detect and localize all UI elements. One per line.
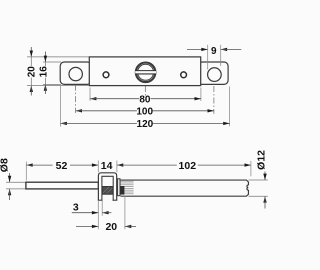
dimension 80 (90, 94, 201, 105)
barrel (hatched block) (102, 187, 113, 195)
svg-text:16: 16 (39, 66, 50, 78)
svg-text:20: 20 (105, 221, 117, 233)
dia8 extension top (6, 181, 26, 183)
thread lines (120, 181, 133, 194)
dimension 100 (76, 106, 214, 117)
clamp leg bottoms (98, 199, 103, 201)
svg-text:120: 120 (137, 119, 154, 130)
dimension row 102 (117, 160, 251, 176)
svg-text:Ø12: Ø12 (255, 150, 267, 170)
dia12 extension top (249, 179, 268, 181)
svg-text:102: 102 (179, 160, 197, 172)
right hole (208, 68, 222, 82)
left hole (69, 67, 82, 80)
thin rod (26, 182, 99, 189)
clamp extension verticals below (97, 201, 99, 230)
extension line tab bottom (43, 83, 61, 85)
clamp outer (98, 173, 116, 200)
left tab (rounded) (60, 62, 91, 84)
dimension 3 (72, 201, 112, 214)
extension 80 left (89, 88, 91, 101)
svg-text:Ø8: Ø8 (0, 158, 10, 172)
centerline below screw (144, 86, 146, 96)
svg-text:80: 80 (139, 94, 151, 105)
extension line tab top (43, 61, 61, 63)
centerline below left hole (75, 85, 77, 113)
dia8 dimension arrows (0, 158, 11, 200)
barrel bottom line (102, 193, 113, 195)
screw head (135, 63, 156, 83)
washer (118, 179, 120, 196)
extension 80 right (200, 88, 202, 101)
dimension 9 (187, 45, 241, 70)
clamp inner slot (102, 176, 113, 201)
svg-text:100: 100 (136, 106, 153, 117)
extension 120 left (60, 86, 62, 127)
nut (dark) (120, 186, 125, 195)
svg-text:3: 3 (73, 201, 79, 213)
dia8 extension bottom (6, 188, 26, 190)
svg-text:20: 20 (27, 66, 38, 78)
dimension 20 bottom (76, 221, 136, 233)
barrel top line (102, 186, 113, 188)
dimension 14 extension bars (97, 161, 99, 173)
dimension 120 (61, 119, 230, 130)
extension line body bottom (27, 85, 89, 87)
dimension 20 vertical (27, 47, 38, 96)
svg-text:52: 52 (56, 160, 68, 172)
dia12 extension bottom (249, 195, 268, 197)
plate body (89, 57, 200, 86)
dimension 16 vertical (39, 52, 50, 95)
centerline below right hole (213, 86, 215, 114)
small hole right (181, 72, 187, 78)
extension 120 right (229, 87, 231, 127)
extension line body top (27, 56, 89, 58)
svg-text:9: 9 (211, 46, 217, 57)
svg-text:14: 14 (101, 160, 113, 172)
dimension row 52 (26, 160, 98, 181)
dia12 dimension arrows (255, 150, 267, 209)
thick rod body with chamfered notched end (121, 180, 249, 196)
small hole left (103, 72, 109, 78)
right tab (rounded) (198, 62, 228, 84)
